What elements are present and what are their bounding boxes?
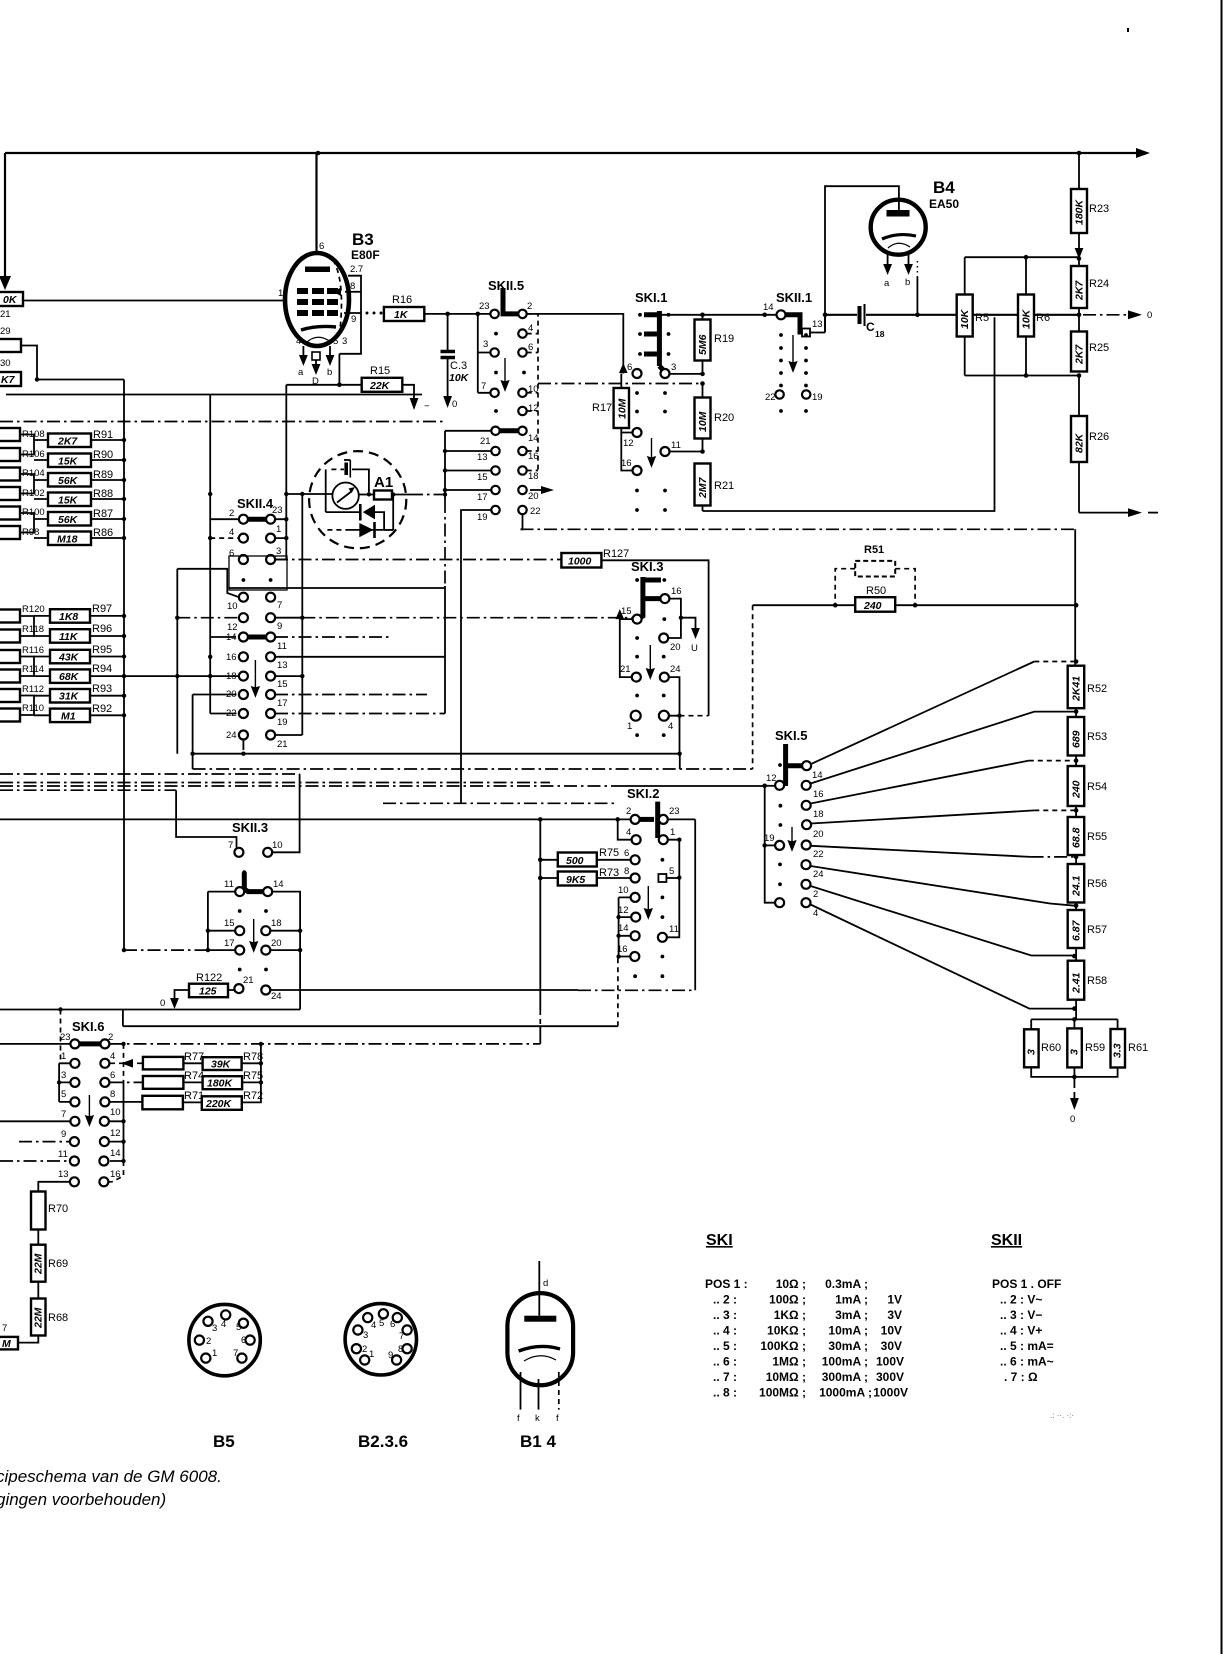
svg-text:10V: 10V (881, 1324, 902, 1338)
svg-text:10: 10 (618, 885, 629, 896)
svg-text:R19: R19 (714, 333, 734, 345)
svg-text:B3: B3 (352, 230, 374, 249)
svg-text:8: 8 (110, 1089, 115, 1100)
svg-text:SKII.5: SKII.5 (488, 278, 524, 293)
svg-text:5: 5 (236, 1322, 241, 1333)
svg-text:3: 3 (1069, 1049, 1081, 1055)
svg-text:19: 19 (477, 512, 488, 523)
svg-text:SKI.6: SKI.6 (72, 1019, 105, 1034)
wire SKII.3 left bracket 11-15-17 (122, 892, 235, 953)
wire R15 node down (to SKII.4 bus) (285, 385, 287, 494)
wire SKII.4 right bus x287 (275, 494, 287, 560)
resistor R95 43K (50, 650, 90, 664)
svg-text:23: 23 (60, 1032, 71, 1043)
svg-text:7: 7 (228, 840, 233, 851)
svg-text:29: 29 (0, 326, 11, 337)
svg-text:22M: 22M (33, 1253, 45, 1275)
wire SKII.4 left feed bus x210 (210, 395, 239, 714)
svg-text:.. 4 :: .. 4 : (713, 1324, 737, 1338)
svg-text:1: 1 (276, 524, 281, 535)
svg-text:13: 13 (477, 452, 488, 463)
resistor R57 6.87 (1068, 903, 1107, 949)
resistor R102 (cut) (0, 487, 20, 500)
resistor R73 9K5 (538, 858, 631, 887)
svg-text:U: U (691, 643, 698, 654)
switch SKII.5 (477, 278, 554, 523)
svg-text:1K: 1K (394, 309, 409, 321)
wire SKII.1 pin13 riser to B4 anode (823, 186, 899, 332)
svg-text:6: 6 (319, 241, 324, 252)
svg-text:SKI: SKI (706, 1232, 733, 1249)
svg-text:22: 22 (226, 708, 237, 719)
wire bracket R129/R130 to bus (21, 346, 124, 382)
svg-text:15: 15 (477, 472, 488, 483)
resistor R20 10M (695, 384, 735, 452)
resistor R97 1K8 (50, 609, 90, 623)
svg-text:4: 4 (626, 827, 631, 838)
svg-text:7: 7 (481, 381, 486, 392)
svg-text:2K7: 2K7 (57, 436, 78, 448)
svg-text:10K: 10K (959, 308, 971, 329)
resistor R23 180K (1071, 153, 1109, 259)
switch SKI.2 (617, 786, 680, 978)
wire SKII.5 pin2 to SKI.1 pin6 node (527, 314, 628, 374)
svg-text:.. 5 :: .. 5 : (713, 1339, 737, 1353)
svg-text:12: 12 (618, 905, 629, 916)
wire SKI.2 pin1/5/11 bracket (667, 838, 682, 938)
wire SKI.1 top row to SKII.1 pin14 (644, 313, 777, 318)
svg-text:11: 11 (277, 641, 287, 652)
wire long line y783 (0, 782, 550, 784)
svg-text:6: 6 (528, 342, 533, 353)
main meter wire (286, 493, 332, 495)
svg-text:3: 3 (483, 339, 488, 350)
svg-text:.. 4 : V+: .. 4 : V+ (1000, 1324, 1042, 1338)
svg-text:6: 6 (624, 848, 629, 859)
resistor R122 125 (160, 972, 235, 1009)
svg-text:R95: R95 (92, 644, 112, 656)
svg-text:16: 16 (813, 789, 824, 800)
meter M (332, 483, 358, 509)
svg-text:9: 9 (277, 621, 282, 632)
resistor R106 (cut) (0, 448, 20, 461)
resistor R74 (143, 1070, 204, 1089)
svg-text:17: 17 (477, 492, 488, 503)
svg-text:R110: R110 (22, 703, 44, 714)
svg-text:SKII.1: SKII.1 (776, 290, 812, 305)
svg-text:0: 0 (160, 998, 165, 1009)
svg-text:8: 8 (624, 866, 629, 877)
svg-text:.. 2 :: .. 2 : (713, 1293, 737, 1307)
svg-text:300V: 300V (876, 1370, 904, 1384)
tube B3 E80F (285, 153, 380, 346)
svg-text:R93: R93 (92, 683, 112, 695)
svg-text:18: 18 (528, 471, 539, 482)
svg-text:R5: R5 (975, 312, 989, 324)
diode 1 (363, 505, 375, 520)
svg-text:11: 11 (224, 879, 234, 890)
svg-text:4: 4 (229, 527, 234, 538)
svg-text:3: 3 (276, 546, 281, 557)
svg-text:240: 240 (1071, 780, 1083, 799)
resistor R75b 180K (183, 1070, 263, 1090)
resistor R118 (cut) (0, 630, 20, 643)
svg-text:2.41: 2.41 (1071, 972, 1083, 994)
switch SKII.4 (226, 496, 288, 750)
svg-text:R21: R21 (714, 480, 734, 492)
capacitor in A1 (344, 463, 348, 476)
svg-text:5: 5 (379, 1318, 384, 1329)
svg-text:16: 16 (671, 586, 682, 597)
svg-text:10MΩ ;: 10MΩ ; (766, 1370, 806, 1384)
table SKI (705, 1232, 908, 1400)
svg-text:M18: M18 (57, 534, 78, 546)
svg-text:R20: R20 (714, 412, 734, 424)
switch SKI.3 (620, 559, 682, 737)
wiper (503, 288, 519, 314)
resistor R89 56K (48, 473, 91, 487)
svg-text:POS 1 :: POS 1 : (705, 1277, 748, 1291)
resistor R71 (142, 1090, 204, 1109)
svg-text:10KΩ ;: 10KΩ ; (767, 1324, 806, 1338)
svg-text:R15: R15 (370, 365, 390, 377)
svg-text:15K: 15K (58, 495, 79, 507)
svg-text:3: 3 (212, 1323, 217, 1334)
resistor R88 15K (48, 493, 91, 507)
svg-text:B2.3.6: B2.3.6 (358, 1432, 408, 1451)
svg-text:82K: 82K (1074, 432, 1086, 453)
svg-text:2K7: 2K7 (1074, 280, 1086, 301)
svg-text:30V: 30V (881, 1339, 902, 1353)
svg-text:10M: 10M (616, 398, 628, 419)
resistor R98 (cut) (0, 526, 20, 539)
wire SKI.2 left bracket 10-12-14-16 (616, 897, 631, 958)
wire lower bracket line y1009 (0, 1007, 300, 1063)
svg-text:12: 12 (110, 1128, 121, 1139)
svg-text:14: 14 (618, 923, 629, 934)
wire SKI.6 pin2 long line (0, 1042, 540, 1046)
wire SKI.3 16/20 bus and U terminal (669, 599, 700, 654)
svg-text:SKI.3: SKI.3 (631, 559, 664, 574)
svg-text:cipeschema van de GM 6008.: cipeschema van de GM 6008. (0, 1467, 222, 1486)
svg-text:14: 14 (110, 1148, 121, 1159)
svg-text:R68: R68 (48, 1312, 68, 1324)
wire R15 right to minus terminal (402, 385, 430, 412)
main signal wire SKII.1..C18..R5 R6..R23/24 node (825, 313, 1081, 318)
svg-text:4: 4 (528, 323, 533, 334)
wire SKI.6 pin4 row with arrow to R77 (110, 1059, 143, 1068)
svg-text:d: d (543, 1278, 548, 1289)
wire lines y754 and y769 (190, 695, 752, 770)
resistor R53 689 (1068, 708, 1107, 755)
svg-text:k: k (535, 1413, 540, 1424)
svg-text:.. 8 :: .. 8 : (713, 1386, 737, 1400)
svg-text:11K: 11K (59, 631, 79, 643)
svg-text:9: 9 (388, 1350, 393, 1361)
svg-text:R56: R56 (1087, 878, 1107, 890)
wire SKI.6 pin6 row (110, 1081, 143, 1083)
svg-text:17: 17 (277, 698, 288, 709)
svg-text:1000V: 1000V (873, 1386, 908, 1400)
svg-text:K7: K7 (1, 374, 16, 386)
svg-text:30mA ;: 30mA ; (828, 1339, 868, 1353)
svg-text:10: 10 (110, 1107, 121, 1118)
svg-text:E80F: E80F (351, 248, 380, 262)
svg-text:3: 3 (61, 1070, 66, 1081)
svg-text:24.1: 24.1 (1071, 875, 1083, 897)
svg-text:15K: 15K (58, 456, 79, 468)
tube base B1 4 (507, 1261, 573, 1451)
svg-text:23: 23 (272, 505, 283, 516)
svg-text:21: 21 (620, 664, 631, 675)
wire SKII.3 right bracket 14-18-20 down (270, 892, 302, 1010)
svg-text:13: 13 (277, 660, 288, 671)
wire line y1026 (123, 957, 618, 1027)
wire SKI.2 left bus x540 (539, 819, 541, 1010)
svg-text:16: 16 (528, 451, 539, 462)
svg-text:1: 1 (212, 1348, 217, 1359)
svg-text:12: 12 (528, 403, 539, 414)
wire bus x124 (123, 380, 125, 951)
resistor R5 10K (957, 257, 989, 375)
svg-text:5: 5 (333, 336, 338, 347)
svg-text:6.87: 6.87 (1071, 919, 1083, 941)
resistor R129 (cut) (0, 326, 21, 352)
resistor R68 22M (18, 1299, 68, 1343)
resistor R114 (cut) (0, 670, 20, 683)
wire dash node R15 line to R19 bottom (538, 383, 703, 385)
svg-text:220K: 220K (205, 1098, 233, 1110)
svg-text:3: 3 (1026, 1049, 1038, 1055)
wire vertical x445 with SKII.5 feeds (443, 431, 491, 714)
resistor R51 dashed (835, 544, 915, 605)
tick mark top right (1127, 28, 1129, 32)
svg-text:.. 6 :: .. 6 : (713, 1355, 737, 1369)
svg-text:1: 1 (627, 721, 632, 732)
svg-text:24: 24 (226, 730, 237, 741)
svg-text:2: 2 (813, 889, 818, 900)
svg-text:0: 0 (452, 399, 457, 410)
switch SKI.6 (58, 1019, 121, 1186)
svg-text:39K: 39K (211, 1059, 232, 1071)
switch SKI.5 (764, 728, 824, 919)
wire 0 output arrow at R24/R25 node (1083, 310, 1152, 321)
resistor R86 M18 (48, 532, 91, 546)
svg-text:15: 15 (621, 606, 632, 617)
svg-text:18: 18 (226, 671, 237, 682)
svg-text:R16: R16 (392, 294, 412, 306)
wire SKI.2 bus tail into long rail (539, 1026, 541, 1044)
svg-text:12: 12 (766, 773, 777, 784)
svg-text:18: 18 (271, 918, 282, 929)
wire SKI.2 pin2 feed line (0, 817, 631, 840)
svg-text:24: 24 (271, 991, 282, 1002)
capacitor C3 10K (441, 314, 470, 410)
svg-text:1: 1 (369, 1349, 374, 1360)
resistor R87 56K (48, 512, 91, 526)
svg-text:31K: 31K (59, 691, 80, 703)
svg-text:2: 2 (362, 1344, 367, 1355)
svg-text:68.8: 68.8 (1071, 827, 1083, 848)
svg-text:SKII: SKII (991, 1232, 1022, 1249)
svg-text:.. 7 :: .. 7 : (713, 1370, 737, 1384)
svg-text:EA50: EA50 (929, 197, 959, 211)
svg-text:R94: R94 (92, 663, 112, 675)
svg-text:R69: R69 (48, 1258, 68, 1270)
svg-text:16: 16 (226, 652, 237, 663)
svg-text:21: 21 (480, 436, 491, 447)
resistor R93 31K (50, 689, 90, 703)
wire SKI.6 lower left feeds (0, 1121, 70, 1161)
svg-text:6: 6 (110, 1070, 115, 1081)
svg-text:180K: 180K (207, 1078, 234, 1090)
svg-text:R52: R52 (1087, 683, 1107, 695)
svg-text:3mA ;: 3mA ; (835, 1308, 868, 1322)
capacitor C18 (860, 304, 885, 339)
svg-text:1000: 1000 (568, 556, 592, 568)
resistor R59 3 (1067, 1028, 1082, 1067)
diode 2 (359, 523, 373, 537)
svg-text:2.7: 2.7 (350, 264, 363, 275)
svg-text:23: 23 (669, 806, 680, 817)
svg-text:4: 4 (813, 908, 818, 919)
svg-text:R26: R26 (1089, 431, 1109, 443)
resistor R55 68.8 (1068, 806, 1107, 855)
resistor R108 (cut) (0, 428, 20, 441)
wire long line y394 to SKII.4 feed (6, 394, 422, 396)
resistor R19 5M6 (695, 315, 735, 374)
svg-text:−: − (424, 401, 430, 412)
svg-text:18: 18 (813, 809, 824, 820)
svg-text:8: 8 (350, 281, 355, 292)
wire R94 row long line to SKII.4 pin18 (124, 674, 239, 678)
svg-text:R50: R50 (866, 585, 886, 597)
svg-text:5M6: 5M6 (697, 334, 709, 355)
resistor R92 M1 (50, 709, 90, 723)
svg-text:R114: R114 (22, 664, 44, 675)
svg-text:24: 24 (813, 869, 824, 880)
svg-text:2: 2 (527, 301, 532, 312)
switch SKI.1 (621, 290, 681, 512)
svg-text:.. 6 : mA~: .. 6 : mA~ (1000, 1355, 1054, 1369)
svg-text:19: 19 (277, 717, 288, 728)
svg-text:10mA ;: 10mA ; (828, 1324, 868, 1338)
svg-text:R61: R61 (1128, 1042, 1148, 1054)
svg-text:3: 3 (363, 1330, 368, 1341)
svg-text:R92: R92 (92, 703, 112, 715)
svg-text:R6: R6 (1036, 312, 1050, 324)
svg-text:0.3mA ;: 0.3mA ; (825, 1277, 868, 1291)
svg-text:B4: B4 (933, 178, 955, 197)
svg-text:22: 22 (765, 392, 776, 403)
resistor R100 (cut) (0, 507, 20, 520)
svg-text:23: 23 (479, 301, 490, 312)
svg-text:22M: 22M (33, 1307, 45, 1329)
svg-text:SKII.4: SKII.4 (237, 496, 274, 511)
svg-text:1MΩ ;: 1MΩ ; (772, 1355, 806, 1369)
svg-text:13: 13 (812, 319, 823, 330)
svg-text:16: 16 (621, 458, 632, 469)
resistor R72 220K (183, 1044, 263, 1110)
svg-text:22: 22 (813, 849, 824, 860)
svg-text:R96: R96 (92, 623, 112, 635)
svg-text:100KΩ ;: 100KΩ ; (760, 1339, 806, 1353)
svg-text:22K: 22K (369, 380, 391, 392)
svg-text:.. 3 : V−: .. 3 : V− (1000, 1308, 1042, 1322)
svg-text:4: 4 (668, 721, 673, 732)
svg-text:9: 9 (61, 1129, 66, 1140)
wire R16 right to SKII.5 (424, 312, 494, 317)
svg-text:8: 8 (398, 1344, 403, 1355)
svg-text:1K8: 1K8 (59, 611, 78, 623)
resistor R58 2.41 (1068, 948, 1107, 1019)
svg-text:0: 0 (1070, 1114, 1075, 1125)
resistor R116 (cut) (0, 650, 20, 663)
svg-text:100Ω ;: 100Ω ; (769, 1293, 806, 1307)
wire SKII.4 row lines to right (229, 560, 632, 714)
switch SKII.3 (224, 820, 284, 1002)
svg-text:R54: R54 (1087, 781, 1107, 793)
meter assembly A1 (286, 451, 447, 548)
svg-text:2K41: 2K41 (1071, 676, 1083, 702)
svg-text:240: 240 (863, 600, 882, 612)
wire diagonal fan SKI.5 to divider chain (811, 662, 1077, 1009)
resistor R25 2K7 (1071, 315, 1109, 372)
svg-text:180K: 180K (1074, 198, 1086, 225)
svg-text:R57: R57 (1087, 924, 1107, 936)
svg-text:R60: R60 (1041, 1042, 1061, 1054)
svg-text:B1 4: B1 4 (520, 1432, 556, 1451)
svg-text:R55: R55 (1087, 831, 1107, 843)
A1 wiring (352, 469, 369, 492)
svg-text:R25: R25 (1089, 342, 1109, 354)
svg-text:100MΩ ;: 100MΩ ; (759, 1386, 806, 1400)
svg-text:12: 12 (623, 438, 634, 449)
svg-text:14: 14 (226, 632, 237, 643)
svg-text:R118: R118 (22, 624, 44, 635)
wire A1 right bus x302 down (275, 494, 302, 735)
svg-text:15: 15 (224, 918, 235, 929)
svg-text:2M7: 2M7 (697, 476, 709, 499)
resistor R112 (cut) (0, 689, 20, 702)
wire line y790 to SKII.3 pin7 (0, 789, 176, 791)
svg-text:20: 20 (271, 938, 282, 949)
svg-text:2: 2 (108, 1032, 113, 1043)
wire SKI.6 right bracket 10-12-14-16 (109, 1044, 126, 1182)
svg-text:7: 7 (233, 1348, 238, 1359)
wire aux bus x177 (177, 569, 239, 754)
wire R5/R6 top bus to R23/R24 node (965, 255, 1082, 261)
svg-text:4: 4 (221, 1319, 226, 1330)
wire dash rail y421 (0, 421, 445, 423)
svg-text:7: 7 (2, 1323, 7, 1334)
svg-text:1mA ;: 1mA ; (835, 1293, 868, 1307)
svg-text:21: 21 (0, 309, 11, 320)
svg-text:11: 11 (669, 924, 679, 935)
svg-text:R53: R53 (1087, 731, 1107, 743)
svg-text:14: 14 (763, 302, 774, 313)
resistor R75 500 (540, 847, 630, 867)
svg-text:M: M (2, 1338, 11, 1350)
wire SKII.3 pin24 long line to SKI.2 pin23 drop (270, 819, 695, 990)
svg-text:30: 30 (0, 358, 11, 369)
svg-text:R23: R23 (1089, 203, 1109, 215)
svg-text:b: b (327, 367, 332, 378)
svg-text:. 7 : Ω: . 7 : Ω (1004, 1370, 1038, 1384)
wire R5/R6 bottom bus to R25 node (965, 373, 1082, 378)
svg-text:11: 11 (58, 1149, 68, 1160)
svg-text:13: 13 (58, 1169, 69, 1180)
